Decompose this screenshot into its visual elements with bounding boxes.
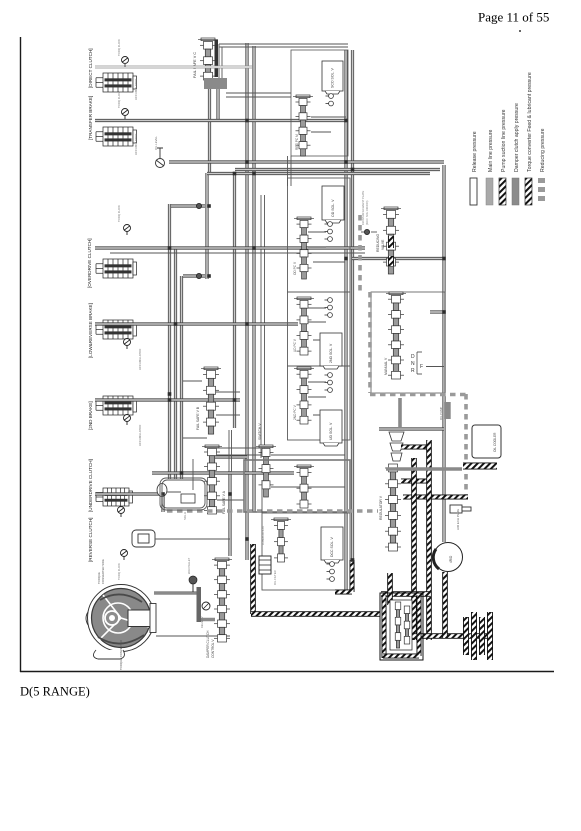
solenoid box N-D SOL V (322, 61, 343, 94)
filter oval (157, 484, 167, 497)
wire dashed reducing horizontal y394 (370, 393, 466, 397)
hatch grid bars near regulator (401, 445, 430, 450)
oil pan strainer comb bottom right (463, 617, 469, 655)
wire box A drop x289 (288, 156, 292, 186)
valve fail safe V C top (198, 38, 218, 80)
svg-text:[LOW&REVERSE BRAKE]: [LOW&REVERSE BRAKE] (88, 303, 93, 358)
svg-text:ACCUMULATOR: ACCUMULATOR (134, 134, 138, 155)
solenoid ports dcc (327, 562, 335, 582)
solenoid box OD SOL V (322, 186, 344, 223)
torque converter inner ring (103, 603, 133, 633)
svg-text:ACCUMULATOR: ACCUMULATOR (138, 425, 142, 446)
label R N D positions (411, 354, 423, 374)
wire reverse line y539 (155, 538, 230, 540)
svg-text:Main line pressure: Main line pressure (488, 130, 494, 172)
frame left border (20, 37, 22, 672)
svg-text:R: R (411, 368, 415, 374)
svg-text:OIL LEVEL: OIL LEVEL (154, 136, 158, 150)
svg-text:D: D (411, 354, 415, 360)
wire bundle x169 (168, 204, 171, 479)
svg-text:CONTROL V: CONTROL V (211, 639, 215, 658)
frame bottom border (20, 671, 554, 673)
wire branch y206 with check ball (171, 204, 205, 207)
module box DCC outline (262, 513, 350, 590)
wire top vertical thin x219 (219, 44, 222, 88)
wire connectors box A (311, 117, 346, 132)
valve DAMPER CLUTCH CONTROL V (212, 558, 232, 642)
hatch pipe below circle x445 (442, 572, 448, 638)
wire riser x209 from elbow (208, 89, 211, 173)
wire y438 link (183, 437, 207, 439)
wire bundle x234 (233, 174, 236, 429)
wire branch y276 with check ball (183, 274, 205, 277)
solenoid box DCC SOL V (321, 527, 343, 563)
wire stub y366 manual to riser (426, 366, 444, 368)
reducing valve hatch bands (388, 236, 394, 248)
svg-text:Pump suction line pressure: Pump suction line pressure (501, 109, 507, 172)
valve R PC V (294, 465, 314, 508)
pump box right and bottom hatch (417, 595, 422, 656)
svg-text:VALVE: VALVE (381, 239, 385, 250)
wire bundle x247 (245, 43, 248, 560)
gauge dark circle (189, 576, 197, 584)
valve small spool in DCC box (271, 518, 291, 562)
svg-text:FAIL SAFE V C: FAIL SAFE V C (193, 52, 197, 78)
svg-text:[OVERDRIVE CLUTCH]: [OVERDRIVE CLUTCH] (87, 238, 92, 288)
svg-text:F: F (420, 364, 423, 370)
solenoid small box (181, 494, 195, 503)
cooler bypass hatched (463, 463, 497, 470)
valve REGULATOR V (385, 464, 401, 551)
wire stub y312 manual to riser (430, 310, 444, 313)
torque converter bottom bracket (93, 650, 124, 659)
wire pipe unit2 y120 (95, 119, 346, 122)
valve body gray elbow (204, 78, 227, 89)
svg-text:4R/D: 4R/D (449, 555, 453, 563)
svg-text:OIL FILTER: OIL FILTER (273, 570, 277, 585)
svg-text:Torque converter Feed & lubric: Torque converter Feed & lubricant pressu… (527, 72, 533, 172)
svg-text:[UNDERDRIVE CLUTCH]: [UNDERDRIVE CLUTCH] (88, 459, 93, 512)
svg-text:LUBRICATION: LUBRICATION (261, 526, 265, 545)
lubrication line x262 (261, 480, 263, 513)
svg-text:2ND SOL. V: 2ND SOL. V (329, 343, 333, 363)
svg-text:REG PC M: REG PC M (295, 134, 299, 150)
wire gray main right riser x444 (442, 165, 445, 542)
svg-text:REGULATOR V: REGULATOR V (379, 495, 383, 520)
node solenoid circle x160 y163 (156, 159, 165, 168)
svg-text:[TRANSFER BRAKE]: [TRANSFER BRAKE] (88, 96, 93, 140)
wire 2nd connectors (308, 382, 326, 415)
hatch pipe suction x253 (250, 544, 256, 614)
svg-text:CONVERTER SIDE: CONVERTER SIDE (101, 559, 105, 584)
valve OD PC V (294, 217, 314, 279)
wire long pipe y162 (169, 160, 444, 163)
svg-text:(DCC: SOL OFF/ON): (DCC: SOL OFF/ON) (365, 200, 369, 225)
svg-text:Damper clutch apply pressure: Damper clutch apply pressure (514, 103, 520, 172)
wire ud connectors (308, 308, 326, 340)
wire TC to damper valve gray (154, 593, 215, 620)
valve body box manual outline (371, 292, 445, 393)
svg-text:SOL A: SOL A (183, 512, 187, 520)
wire dashed reducing horizontal y511 (167, 509, 378, 513)
wire hatch bottom center y592 (335, 590, 352, 595)
solenoid box UD SOL V (320, 410, 342, 446)
svg-text:OIL COOLER: OIL COOLER (493, 432, 497, 452)
valve MANUAL V (386, 292, 406, 379)
wire pipe underdrive y494 (95, 492, 163, 495)
svg-text:TORQ FLOW: TORQ FLOW (117, 205, 121, 222)
wire pipe y253 (110, 252, 365, 254)
svg-text:FAIL SAFE V B: FAIL SAFE V B (196, 406, 200, 430)
svg-text:2ND PC V: 2ND PC V (293, 404, 297, 420)
torque converter shaft cylinder (128, 610, 151, 627)
svg-text:WAX PELLET: WAX PELLET (187, 557, 191, 574)
valve torque conv spool (293, 95, 313, 156)
svg-text:RELIEF V: RELIEF V (200, 616, 204, 628)
wire elbow drop x218 (216, 89, 219, 120)
gauge circle 2 (202, 602, 210, 610)
wire trunk x352 (351, 50, 354, 560)
wire pipe 2nd brake y400 (95, 398, 240, 401)
wire gray drop x400 to cooler line (398, 398, 402, 428)
module frames column (288, 178, 351, 292)
svg-text:TORQ FLOW: TORQ FLOW (117, 563, 121, 580)
oil filter symbol (259, 556, 271, 574)
wire fail-safe A to switch link y448 (217, 447, 261, 449)
hatch pipe bottom y636 (400, 633, 490, 639)
oil pump gray block on riser (444, 402, 451, 419)
svg-text:Release pressure: Release pressure (472, 131, 478, 172)
valve body box A outline (291, 50, 348, 156)
svg-text:DCC SOL. V: DCC SOL. V (330, 536, 334, 557)
valve 2ND PC V (294, 367, 314, 424)
svg-text:D(5 RANGE): D(5 RANGE) (20, 685, 90, 699)
wire pipe y258 to manual valve (352, 257, 444, 260)
wire fsA right link y457 (215, 455, 247, 458)
wire trunk x346 (344, 50, 347, 592)
wire thin pair x229 (229, 430, 232, 471)
hatch pipe regulator x414 (411, 458, 417, 640)
hatch pipe bottom y614 (251, 611, 380, 617)
svg-text:REDUCING: REDUCING (376, 234, 380, 252)
valve SWITCH V (256, 445, 276, 497)
wire pipe low-rev y324 (95, 322, 298, 325)
torque converter gray mass (92, 589, 151, 648)
solenoid ports 2nd (325, 298, 333, 318)
wire riser x207 y173-279 (205, 173, 208, 279)
module box B outline (244, 460, 350, 512)
valve FAIL SAFE V A (202, 445, 222, 514)
wire switch connectors (217, 455, 345, 500)
page number text (519, 30, 521, 32)
solenoid box 2ND SOL V (320, 333, 342, 369)
valve UD PC V (294, 297, 314, 355)
svg-text:SWITCH V: SWITCH V (258, 423, 262, 440)
svg-text:Page 11 of 55: Page 11 of 55 (478, 10, 549, 25)
svg-text:OIL PUMP: OIL PUMP (439, 407, 443, 420)
junction nodes (168, 246, 172, 250)
wire gray to cooler y467 (386, 467, 462, 471)
torque converter outer shell (88, 585, 155, 652)
wire pipe y473 (152, 471, 294, 474)
wire dashed drop to cooler x466 (464, 394, 468, 497)
wire bundle x175 (174, 248, 177, 479)
svg-text:[REVERSE CLUTCH]: [REVERSE CLUTCH] (88, 518, 93, 562)
wire bundle x181 (180, 276, 183, 479)
wire TC thin return y636 (156, 635, 230, 637)
wire dashed reducing vertical x360 (358, 215, 362, 292)
svg-text:[DIRECT CLUTCH]: [DIRECT CLUTCH] (88, 49, 93, 88)
wire pipe overdrive y248 (95, 246, 365, 249)
svg-text:AIR EXH PLUG: AIR EXH PLUG (456, 508, 460, 530)
hatch valve near cooler (387, 573, 393, 605)
node ball reducing (364, 229, 369, 234)
hatch pipe regulator x429 (426, 440, 432, 640)
wire pipe direct clutch y67 (95, 66, 252, 69)
svg-text:DAMPER CLUTCH: DAMPER CLUTCH (206, 630, 210, 658)
svg-text:UD PC V: UD PC V (293, 338, 297, 352)
valve REDUCING VALVE (381, 207, 401, 274)
wire bundle x254 (252, 46, 255, 512)
svg-text:UD SOL. V: UD SOL. V (329, 422, 333, 440)
wire fsb connectors (183, 381, 240, 415)
svg-text:ACCUMULATOR: ACCUMULATOR (134, 79, 138, 100)
svg-text:MANUAL V: MANUAL V (384, 357, 388, 375)
wire long pipe y169 (235, 168, 440, 171)
solenoid ports A (326, 94, 334, 106)
wire oval to solbox y492 (167, 459, 193, 492)
svg-text:SCO SOL. V: SCO SOL. V (331, 67, 335, 88)
wire top thin pair y44 (219, 43, 348, 45)
solenoid ports ud (325, 373, 333, 393)
solenoid ports OD (325, 222, 333, 242)
hatch pipe y594 right (381, 591, 430, 597)
pump assembly hatched box (380, 593, 423, 660)
wire thin pair y93 to box A (226, 93, 291, 97)
wire long pipe y173 (207, 172, 430, 175)
svg-text:TORQUE CONVERTER: TORQUE CONVERTER (119, 640, 123, 670)
svg-text:ACCUMULATOR: ACCUMULATOR (138, 349, 142, 370)
circle 4R/D junction (434, 543, 463, 572)
wire underdrive riser x163 (161, 494, 164, 512)
svg-text:Reducing pressure: Reducing pressure (540, 128, 546, 172)
wire hatch trunk lower x352 (350, 560, 355, 592)
valve FAIL SAFE V B (201, 367, 221, 434)
oil cooler box (472, 425, 501, 458)
wire od connectors (308, 232, 345, 262)
loop around filter oval (160, 478, 207, 510)
wire gray riser x230 (228, 471, 231, 556)
wire bundle x261 (260, 195, 262, 458)
svg-text:TORQ FLOW: TORQ FLOW (117, 39, 121, 56)
svg-text:OD SOL. V: OD SOL. V (331, 199, 335, 217)
regulator funnel shapes (389, 432, 404, 461)
svg-text:[2ND BRAKE]: [2ND BRAKE] (88, 401, 93, 430)
svg-text:FAIL SAFE V A: FAIL SAFE V A (222, 490, 226, 514)
svg-text:OD PC V: OD PC V (293, 261, 297, 275)
air exhaust plug (450, 505, 471, 513)
svg-text:N: N (411, 361, 415, 367)
svg-text:TORQ FLOW: TORQ FLOW (117, 91, 121, 108)
wire regulator top line y429 (379, 427, 444, 430)
wire dashed manual box left x370 (368, 292, 372, 393)
